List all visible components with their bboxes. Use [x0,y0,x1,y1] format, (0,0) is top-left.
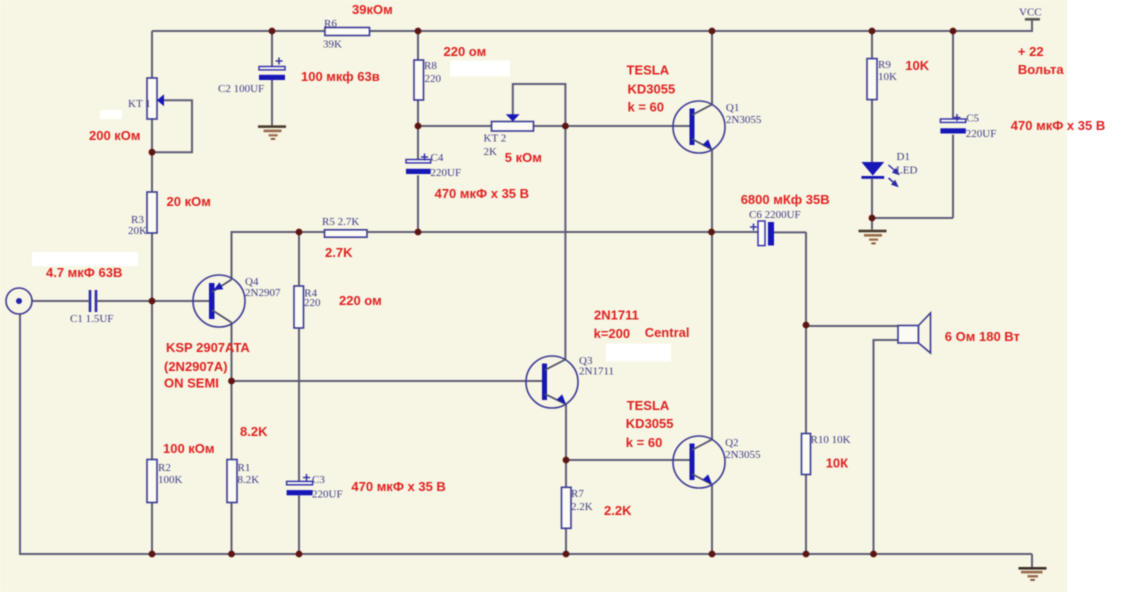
svg-text:5 кОм: 5 кОм [505,150,542,165]
svg-text:R10 10K: R10 10K [811,434,851,446]
svg-text:100 кОм: 100 кОм [163,441,215,456]
svg-text:R1: R1 [238,462,251,474]
svg-text:C2 100UF: C2 100UF [218,83,264,95]
svg-text:220UF: 220UF [312,489,343,501]
svg-text:(2N2907A): (2N2907A) [164,359,228,374]
svg-text:39K: 39K [323,39,342,51]
svg-text:C6 2200UF: C6 2200UF [749,209,801,221]
svg-text:2.7K: 2.7K [325,245,353,260]
svg-text:100K: 100K [158,474,183,486]
svg-text:LED: LED [896,165,917,177]
svg-text:470 мкФ x 35 В: 470 мкФ x 35 В [351,479,445,494]
svg-text:2N3055: 2N3055 [725,449,761,461]
svg-text:Q2: Q2 [725,437,738,449]
svg-text:2N2907: 2N2907 [245,287,281,299]
svg-text:20K: 20K [128,225,147,237]
svg-text:ON SEMI: ON SEMI [164,376,219,391]
svg-text:TESLA: TESLA [627,63,670,78]
svg-text:R8: R8 [424,60,437,72]
svg-text:2.2K: 2.2K [571,501,593,513]
svg-text:R5 2.7K: R5 2.7K [322,216,359,228]
svg-text:Вольта: Вольта [1018,62,1064,77]
svg-text:10K: 10K [905,58,929,73]
svg-text:2N3055: 2N3055 [726,114,762,126]
svg-text:Q1: Q1 [726,102,739,114]
svg-text:R2: R2 [158,462,171,474]
svg-text:VCC: VCC [1019,7,1042,19]
svg-text:220UF: 220UF [966,128,997,140]
svg-text:8.2K: 8.2K [238,474,260,486]
svg-text:k = 60: k = 60 [628,100,665,115]
svg-text:KSP 2907ATA: KSP 2907ATA [166,340,250,355]
svg-text:8.2K: 8.2K [240,424,268,439]
svg-text:D1: D1 [897,151,910,163]
svg-text:C4: C4 [431,152,444,164]
svg-text:k = 60: k = 60 [626,435,663,450]
svg-text:2N1711: 2N1711 [594,308,639,323]
svg-text:R9: R9 [878,59,891,71]
svg-text:470 мкФ x 35 В: 470 мкФ x 35 В [435,186,529,201]
svg-text:C1 1.5UF: C1 1.5UF [70,313,113,325]
svg-text:220 ом: 220 ом [444,44,487,59]
svg-text:2N1711: 2N1711 [579,366,614,378]
svg-text:TESLA: TESLA [627,398,670,413]
svg-text:KT 1: KT 1 [128,98,151,110]
svg-text:6 Ом 180 Вт: 6 Ом 180 Вт [945,329,1020,344]
svg-text:470 мкФ x 35 В: 470 мкФ x 35 В [1011,118,1105,133]
svg-text:220 ом: 220 ом [339,293,382,308]
svg-text:6800 мКф 35В: 6800 мКф 35В [741,192,830,207]
svg-text:10K: 10K [878,71,897,83]
svg-text:4.7 мкФ 63В: 4.7 мкФ 63В [46,265,122,280]
svg-text:C3: C3 [312,474,325,486]
svg-text:C5: C5 [966,113,979,125]
svg-text:KT 2: KT 2 [484,133,507,145]
svg-text:100 мкф 63в: 100 мкф 63в [301,69,380,84]
svg-text:KD3055: KD3055 [628,82,676,97]
svg-text:10К: 10К [826,456,848,471]
svg-text:+ 22: + 22 [1018,44,1044,59]
svg-text:220UF: 220UF [431,167,462,179]
svg-text:2K: 2K [484,146,498,158]
svg-text:39кОм: 39кОм [352,2,393,17]
svg-text:k=200: k=200 [594,326,631,341]
svg-text:220: 220 [425,73,442,85]
svg-text:2.2K: 2.2K [604,503,632,518]
svg-text:20 кОм: 20 кОм [167,194,211,209]
svg-text:Central: Central [645,325,690,340]
svg-text:R7: R7 [571,488,584,500]
svg-text:200 кОм: 200 кОм [89,128,141,143]
svg-text:R6: R6 [324,18,337,30]
svg-text:KD3055: KD3055 [626,416,674,431]
svg-text:220: 220 [304,297,321,309]
